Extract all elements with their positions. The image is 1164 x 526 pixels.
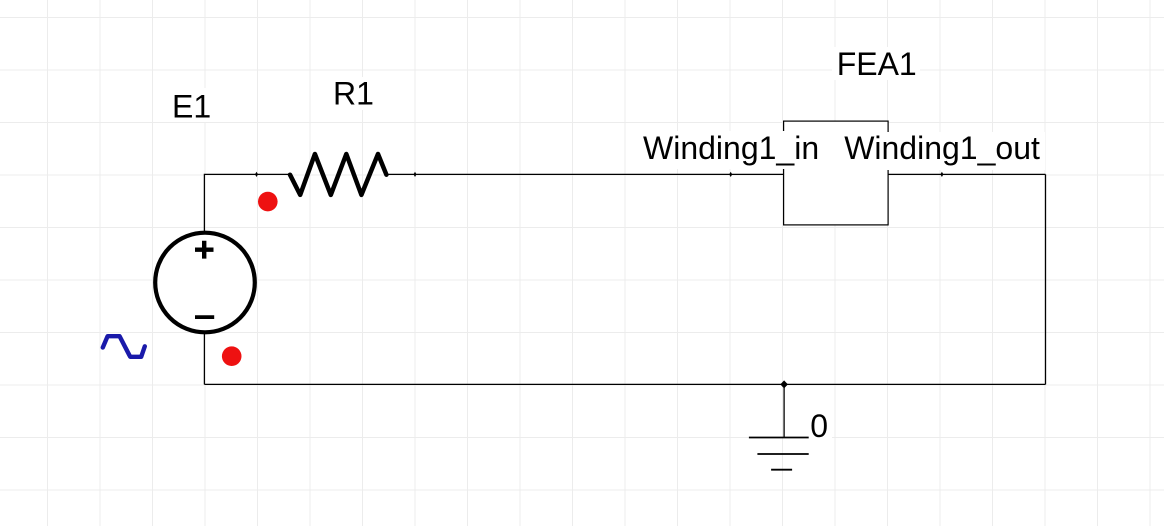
svg-text:Winding1_in: Winding1_in — [643, 130, 819, 166]
pin tick right of FEA box — [940, 172, 943, 177]
label background FEA1 — [832, 47, 920, 80]
wire resistor to FEA box — [386, 173, 783, 175]
pin tick right of resistor — [414, 172, 417, 177]
svg-text:0: 0 — [810, 408, 828, 444]
voltage source E1 circle — [155, 233, 255, 333]
red probe dot 1 — [258, 192, 278, 212]
svg-text:FEA1: FEA1 — [837, 46, 917, 82]
label background R1 — [328, 77, 378, 110]
FEA1 subsystem box — [784, 121, 889, 225]
svg-text:R1: R1 — [333, 76, 374, 112]
red probe dot 2 — [222, 346, 242, 366]
wire bottom — [204, 383, 1045, 385]
wire top-left from source to resistor — [204, 174, 290, 232]
label background Winding1_in — [639, 131, 821, 169]
minus sign — [195, 315, 214, 319]
pin tick left of resistor — [255, 172, 258, 177]
wire source bottom — [203, 333, 205, 384]
ground bar 1 — [749, 437, 809, 439]
label background Winding1_out — [840, 132, 1045, 170]
label background E1 — [167, 88, 213, 122]
junction node — [780, 380, 788, 388]
label background 0 — [805, 409, 832, 440]
resistor R1 — [290, 154, 386, 195]
svg-text:Winding1_out: Winding1_out — [844, 130, 1040, 166]
pin tick left of FEA box — [729, 172, 732, 177]
ground bar 2 — [757, 453, 808, 455]
sine symbol — [103, 336, 145, 357]
ground bar 3 — [771, 469, 792, 471]
wire right vertical — [1045, 174, 1047, 384]
plus sign — [195, 241, 214, 259]
svg-text:E1: E1 — [172, 89, 211, 125]
ground stub wire — [783, 384, 785, 437]
wire FEA box to right corner — [888, 173, 1045, 175]
